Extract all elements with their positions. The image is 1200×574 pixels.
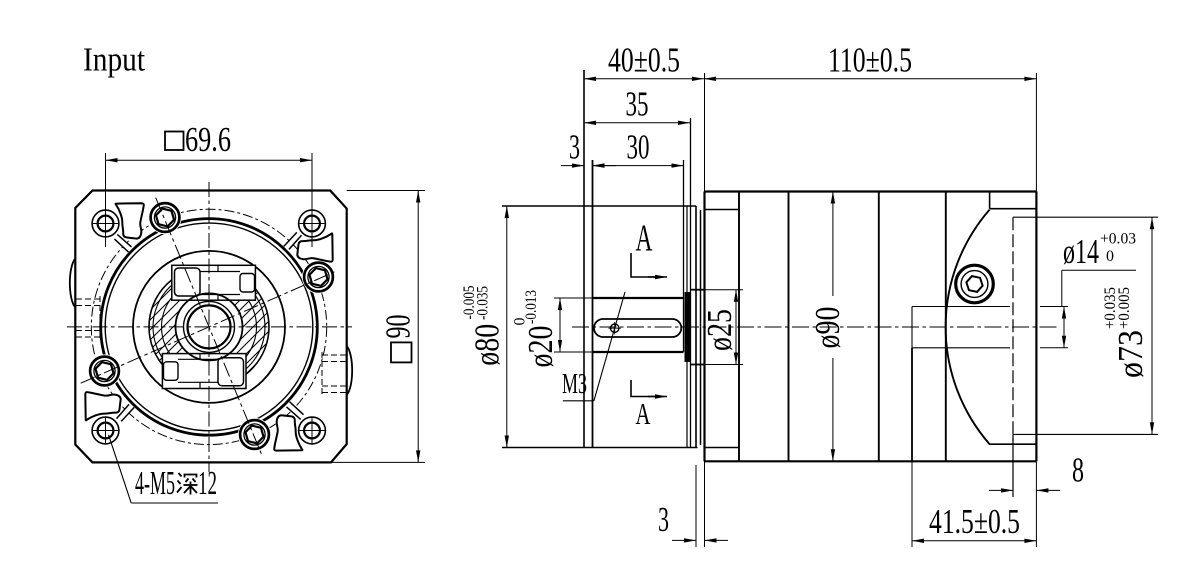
gear section circles [149, 267, 269, 387]
dimension 30 [593, 128, 684, 167]
corner hole BR [299, 417, 326, 444]
svg-text:ø80: ø80 [468, 324, 507, 366]
input shaft Ø20 [593, 160, 684, 352]
dimension 110±0.5 [704, 41, 1037, 80]
Ø25 pilot ring [691, 210, 705, 445]
svg-text:69.6: 69.6 [185, 120, 231, 159]
svg-text:-0.013: -0.013 [523, 290, 540, 324]
svg-text:+0.005: +0.005 [1116, 287, 1133, 329]
body front ring notches [705, 192, 740, 462]
dimension Ø20 [512, 290, 593, 368]
dimension 3 (bottom) [658, 500, 728, 540]
rear housing notches [989, 192, 1036, 445]
housing ring outer arc (heavy) [101, 219, 318, 436]
body division lines [788, 192, 790, 462]
svg-text:3: 3 [569, 128, 580, 167]
svg-text:110±0.5: 110±0.5 [828, 41, 912, 80]
centerline horizontal (front view) [67, 326, 352, 328]
centerline vertical (front view) [208, 182, 210, 472]
center bore circles [176, 293, 243, 360]
dimension 8 [989, 434, 1084, 497]
hidden lines left lug [76, 296, 100, 340]
socket screw lower-right [238, 418, 271, 451]
keyway slot [594, 319, 681, 337]
boss circle [133, 251, 285, 403]
centerline (side view) [572, 326, 1058, 328]
top key block [172, 265, 256, 300]
corner hole TR [299, 210, 326, 237]
dimension 35 [584, 85, 690, 124]
socket screw upper-right [302, 260, 335, 293]
dimension 40±0.5 [584, 41, 704, 80]
svg-text:ø14: ø14 [1063, 232, 1099, 271]
svg-text:A: A [636, 218, 653, 260]
dimension Ø73 [1102, 217, 1152, 434]
svg-text:90: 90 [379, 315, 418, 339]
hand-drawn CJK char (depth) [177, 473, 198, 495]
left edge lug bulge [70, 259, 75, 308]
dimension Ø80 [461, 206, 507, 448]
dimension Ø14 with leader [1040, 231, 1136, 348]
M3 tapped hole [609, 322, 621, 334]
wing pocket top [116, 203, 144, 238]
section A-A arrows [631, 218, 667, 432]
rear concave arc [946, 210, 990, 445]
housing ring inner arc [105, 223, 313, 431]
hatched section annulus [149, 267, 269, 387]
dimension Ø90 [808, 192, 847, 462]
dimension 3 (top) [561, 128, 616, 167]
dimension square 69.6 [106, 120, 313, 247]
svg-text:ø20: ø20 [521, 326, 560, 368]
square flange outline [75, 191, 346, 463]
hidden lines right lug [322, 352, 346, 396]
output bore Ø14 lines [912, 307, 1010, 548]
svg-text:30: 30 [627, 128, 650, 167]
svg-text:ø25: ø25 [700, 309, 739, 351]
svg-text:M3: M3 [562, 369, 587, 400]
output spigot Ø73 edges [1013, 217, 1158, 434]
label 4-M5 depth 12 with leader [109, 435, 219, 503]
svg-text:-0.035: -0.035 [475, 286, 492, 320]
rear socket screw [956, 265, 994, 303]
shaft collar cluster [685, 118, 697, 547]
svg-text:4-M5: 4-M5 [135, 465, 175, 502]
svg-text:0: 0 [1106, 248, 1114, 265]
svg-text:Input: Input [83, 42, 145, 79]
right edge lug bulge [347, 346, 352, 395]
svg-text:A: A [636, 396, 651, 431]
wing pocket left [85, 392, 120, 420]
corner hole BL [92, 417, 119, 444]
M3 label and leader [562, 292, 625, 401]
wing pocket right [297, 233, 332, 261]
svg-text:ø73: ø73 [1111, 330, 1150, 378]
hidden rear face dashed line [1012, 217, 1014, 441]
svg-text:3: 3 [658, 500, 669, 539]
bolt circle (dash-dot) [91, 209, 326, 444]
gearbox body outline [705, 73, 1037, 547]
diagonal centerline through screws UL-LR [156, 198, 263, 456]
diagonal centerline through screws LL-UR [81, 271, 338, 384]
bottom key block [162, 354, 246, 389]
svg-text:41.5±0.5: 41.5±0.5 [929, 502, 1020, 541]
socket screw lower-left [88, 354, 121, 387]
svg-text:8: 8 [1072, 451, 1084, 490]
svg-text:+0.03: +0.03 [1100, 231, 1136, 248]
dimension 41.5±0.5 [912, 502, 1036, 541]
dimension square 90 [331, 191, 425, 463]
dimension Ø25 [700, 290, 743, 365]
wing pocket bottom [274, 415, 302, 450]
svg-text:35: 35 [626, 85, 649, 124]
input flange disc Ø80 [502, 70, 698, 448]
svg-text:12: 12 [198, 465, 217, 502]
corner hole TL [92, 210, 119, 237]
svg-text:ø90: ø90 [808, 307, 847, 349]
socket screw upper-left [148, 201, 181, 234]
svg-text:40±0.5: 40±0.5 [608, 41, 680, 80]
